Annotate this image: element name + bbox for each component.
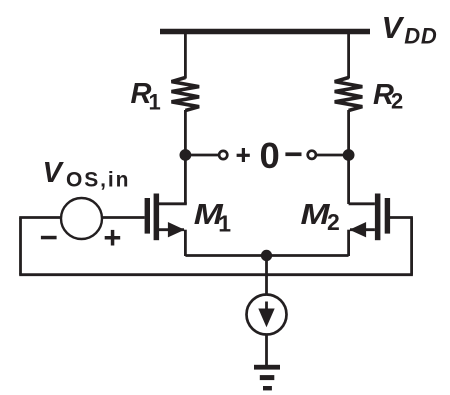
label R1 <box>131 78 161 115</box>
wire gate M2 <box>390 216 413 219</box>
label M2 <box>301 199 340 235</box>
wire common sources rail <box>185 254 348 257</box>
wire gate M1 <box>102 216 145 219</box>
svg-text:0: 0 <box>260 135 280 176</box>
resistor R1 <box>172 78 200 111</box>
wire R2 to drain M2 <box>347 110 350 204</box>
node tail (dot) <box>261 250 272 261</box>
label M1 <box>194 199 231 236</box>
wire current source to ground <box>265 335 268 367</box>
VDD rail <box>160 29 370 35</box>
svg-text:DD: DD <box>404 23 437 48</box>
svg-text:1: 1 <box>149 90 161 115</box>
transistor M1 <box>145 194 187 257</box>
label R2 <box>373 79 403 114</box>
transistor M2 <box>349 194 391 257</box>
svg-text:2: 2 <box>391 89 403 114</box>
node drain M2 (dot) <box>343 149 355 161</box>
source VOS,in (circle) <box>61 198 102 239</box>
wire - terminal to node <box>317 154 349 157</box>
label + (VOS,in plus) <box>105 230 121 246</box>
wire R1 to drain M1 <box>184 110 187 204</box>
wire VDD to R2 <box>347 32 350 79</box>
svg-text:1: 1 <box>218 210 231 236</box>
ground <box>254 365 280 391</box>
node drain M1 (dot) <box>180 149 192 161</box>
label + (output plus) <box>237 148 250 162</box>
wire feedback left vertical <box>19 218 22 275</box>
svg-text:OS,in: OS,in <box>66 168 129 191</box>
label - (output minus) <box>285 152 301 156</box>
current source ISS <box>247 295 287 335</box>
terminal + (open circle) <box>219 151 227 159</box>
wire feedback right vertical <box>410 218 413 275</box>
svg-text:2: 2 <box>327 209 340 235</box>
wire VDD to R1 <box>184 32 187 79</box>
terminal - (open circle) <box>308 151 316 159</box>
label - (VOS,in minus) <box>41 236 57 240</box>
wire VOS,in left lead <box>19 216 61 219</box>
wire node to + terminal <box>185 154 218 157</box>
wire feedback bottom <box>19 273 413 276</box>
svg-text:V: V <box>43 157 65 189</box>
label VDD <box>382 10 437 48</box>
label VOS,in <box>43 157 129 192</box>
wire tail node to current source <box>265 256 268 296</box>
svg-text:V: V <box>382 10 405 45</box>
label 0 (output voltage) <box>260 135 280 176</box>
resistor R2 <box>335 78 363 111</box>
